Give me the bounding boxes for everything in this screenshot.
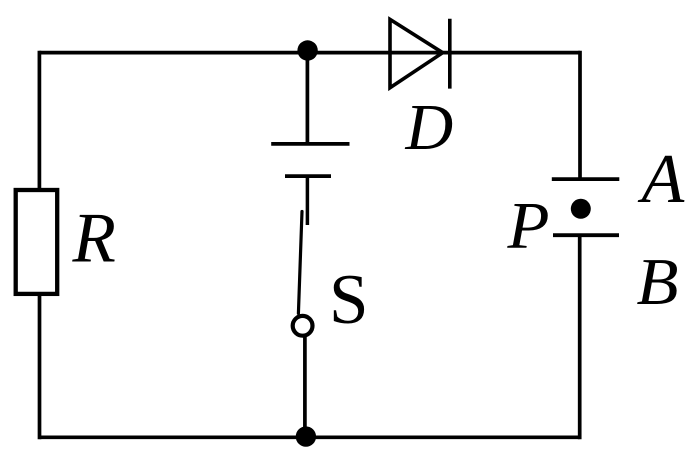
point P dot [571,199,591,219]
diode D triangle [390,19,443,87]
wire switch to bottom junction [303,336,307,437]
switch S lever [298,212,302,314]
svg-text:D: D [405,91,454,164]
wire middle top (junction to battery) [306,51,310,144]
wire bottom [40,435,580,439]
svg-text:A: A [638,141,685,218]
resistor R [16,190,58,294]
svg-text:P: P [506,189,549,263]
diode D cathode bar [448,19,452,89]
battery cell: short plate [285,174,331,178]
junction node top [297,40,317,60]
switch S contact circle [293,316,313,336]
wire battery to switch [306,176,310,225]
wire right upper (corner to plate A) [578,51,582,179]
capacitor plate B [553,233,619,237]
wire top (left node to right corner) [39,51,580,55]
svg-text:R: R [72,200,116,278]
capacitor plate A [552,177,620,181]
battery cell: long plate [271,142,349,146]
wire left side [38,51,42,190]
junction node bottom [296,426,316,446]
wire left lower [38,294,42,439]
svg-text:B: B [637,245,679,319]
svg-text:S: S [329,261,369,339]
wire right lower (plate B to bottom corner) [578,235,582,439]
